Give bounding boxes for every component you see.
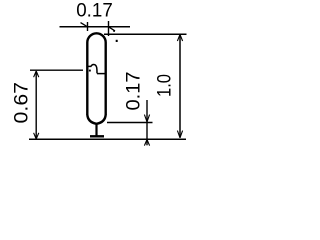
svg-text:0.67: 0.67	[12, 82, 33, 124]
1.0 arrow down	[177, 131, 182, 138]
0.17 arrow down (tip at bulb-bottom line)	[144, 115, 149, 122]
0.67 extension line (step level)	[30, 69, 83, 71]
bulb bottom taper left	[87, 115, 96, 124]
bulb bottom taper right	[97, 115, 106, 124]
stray dot near right arrow	[113, 30, 115, 32]
1.0 dimension line	[179, 35, 181, 138]
svg-text:0.17: 0.17	[76, 0, 113, 22]
0.67 dimension line	[35, 71, 37, 138]
0.67 arrow up	[34, 71, 39, 77]
extension line left (x=87.5)	[87, 22, 89, 31]
stray tick	[116, 40, 118, 42]
0.17 arrow up (below baseline)	[144, 140, 149, 146]
extension line from bulb top to 1.0 dimension	[104, 33, 187, 35]
0.67 arrow down	[34, 133, 39, 139]
dot inside bulb	[89, 70, 91, 72]
fill/step arc	[91, 65, 97, 74]
1.0 arrow up	[177, 34, 182, 41]
svg-text:1.0: 1.0	[155, 74, 176, 97]
stem foot bar	[90, 135, 104, 137]
dimension line 0.17 top	[60, 26, 131, 28]
arrowhead right (tip at right extension line)	[109, 27, 116, 31]
arrowhead left (tip at left extension line)	[81, 23, 88, 27]
bulb body (capsule outline)	[87, 33, 105, 115]
extension line right (x=108.5)	[108, 21, 110, 36]
0.17 vertical dimension line	[146, 100, 148, 145]
0.17 lower extension line (bulb bottom)	[107, 122, 153, 124]
lead wire / stem	[95, 123, 97, 136]
baseline (bottom reference line)	[29, 138, 186, 140]
fill/step line lower segment	[97, 73, 105, 75]
svg-text:0.17: 0.17	[123, 72, 145, 111]
fill/step line upper segment	[88, 65, 91, 67]
